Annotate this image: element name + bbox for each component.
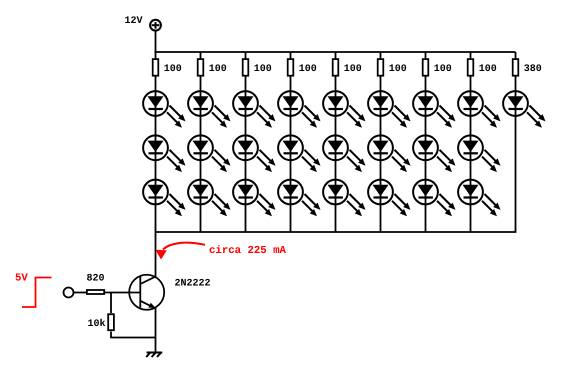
wire input to resistor 820 bbox=[74, 292, 87, 294]
wire column 8 bbox=[470, 52, 472, 232]
LED column 4 row 3 bbox=[278, 180, 320, 217]
red curved arrow to collector wire bbox=[156, 243, 206, 260]
wire column 5 bbox=[335, 52, 337, 232]
LED column 6 row 2 bbox=[368, 135, 410, 172]
resistor 100 (column 7) bbox=[423, 59, 429, 76]
LED column 4 row 2 bbox=[278, 135, 320, 172]
resistor 10k bbox=[108, 314, 114, 330]
wire from 12V terminal to top bus bbox=[155, 31, 157, 52]
svg-text:circa 225 mA: circa 225 mA bbox=[209, 245, 287, 257]
LED column 7 row 2 bbox=[413, 135, 455, 172]
LED column 3 row 3 bbox=[233, 180, 275, 217]
svg-text:820: 820 bbox=[87, 274, 105, 285]
LED column 5 row 2 bbox=[323, 135, 365, 172]
resistor 100 (column 5) bbox=[333, 59, 339, 76]
resistor 100 (column 2) bbox=[198, 59, 204, 76]
svg-text:100: 100 bbox=[299, 64, 317, 75]
LED column 8 row 1 bbox=[458, 91, 500, 128]
wire base junction down to 10k bbox=[110, 293, 112, 314]
LED column 4 row 1 bbox=[278, 91, 320, 128]
resistor 100 (column 1) bbox=[153, 59, 159, 76]
wire bottom bus bbox=[155, 231, 517, 233]
LED column 6 row 1 bbox=[368, 91, 410, 128]
12V power terminal symbol bbox=[150, 20, 161, 31]
LED column 7 row 1 bbox=[413, 91, 455, 128]
wire column 1 bbox=[155, 52, 157, 232]
LED column 6 row 3 bbox=[368, 180, 410, 217]
svg-text:100: 100 bbox=[209, 64, 227, 75]
LED column 3 row 2 bbox=[233, 135, 275, 172]
LED column 1 row 1 bbox=[143, 91, 185, 128]
svg-text:12V: 12V bbox=[125, 16, 143, 27]
svg-text:10k: 10k bbox=[88, 318, 106, 330]
LED column 8 row 2 bbox=[458, 135, 500, 172]
LED column 9 row 1 bbox=[503, 91, 545, 128]
LED column 2 row 3 bbox=[188, 180, 230, 217]
transistor Q1 2N2222 bbox=[129, 275, 164, 310]
wire emitter down bbox=[155, 308, 157, 353]
LED column 5 row 1 bbox=[323, 91, 365, 128]
resistor 100 (column 6) bbox=[378, 59, 384, 76]
LED column 1 row 2 bbox=[143, 135, 185, 172]
input terminal circle bbox=[64, 288, 74, 298]
LED column 2 row 2 bbox=[188, 135, 230, 172]
svg-text:100: 100 bbox=[389, 64, 407, 75]
svg-text:5V: 5V bbox=[15, 272, 28, 284]
wire column 6 bbox=[380, 52, 382, 232]
resistor 100 (column 4) bbox=[288, 59, 294, 76]
ground symbol bbox=[146, 353, 162, 358]
LED column 1 row 3 bbox=[143, 180, 185, 217]
resistor 820 bbox=[87, 290, 104, 294]
wire column 3 bbox=[245, 52, 247, 232]
wire column 7 bbox=[425, 52, 427, 232]
svg-text:100: 100 bbox=[479, 64, 497, 75]
wire resistor 820 to base bbox=[105, 292, 141, 294]
LED column 7 row 3 bbox=[413, 180, 455, 217]
resistor 380 (column 9) bbox=[513, 59, 519, 76]
5V step waveform (red) bbox=[22, 278, 52, 308]
svg-text:380: 380 bbox=[524, 64, 542, 75]
LED column 8 row 3 bbox=[458, 180, 500, 217]
svg-text:2N2222: 2N2222 bbox=[175, 278, 211, 289]
wire collector (column 1 down to transistor) bbox=[155, 232, 157, 277]
resistor 100 (column 3) bbox=[243, 59, 249, 76]
wire column 4 bbox=[290, 52, 292, 232]
wire column 9 bbox=[515, 52, 517, 232]
wire top bus bbox=[155, 51, 516, 53]
resistor 100 (column 8) bbox=[468, 59, 474, 76]
svg-text:100: 100 bbox=[434, 64, 452, 75]
wire 10k bottom to emitter bbox=[111, 332, 156, 338]
LED column 2 row 1 bbox=[188, 91, 230, 128]
LED column 5 row 3 bbox=[323, 180, 365, 217]
wire column 2 bbox=[200, 52, 202, 232]
svg-text:100: 100 bbox=[344, 64, 362, 75]
svg-text:100: 100 bbox=[254, 64, 272, 75]
LED column 3 row 1 bbox=[233, 91, 275, 128]
svg-text:100: 100 bbox=[164, 64, 182, 75]
